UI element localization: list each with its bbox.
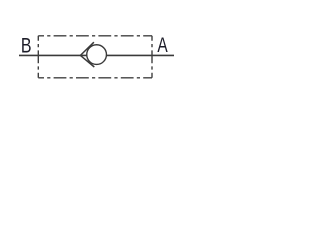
- check valve seat upper arm: [80, 42, 94, 55]
- wire B-A main line: [19, 54, 174, 56]
- enclosure top edge: [38, 35, 152, 37]
- enclosure right edge: [151, 36, 153, 78]
- check valve seat lower arm: [80, 55, 94, 67]
- enclosure left edge: [37, 36, 39, 78]
- svg-text:B: B: [21, 34, 32, 58]
- check valve V1 ball circle: [87, 45, 107, 65]
- svg-text:A: A: [157, 33, 168, 57]
- enclosure bottom edge: [38, 77, 152, 79]
